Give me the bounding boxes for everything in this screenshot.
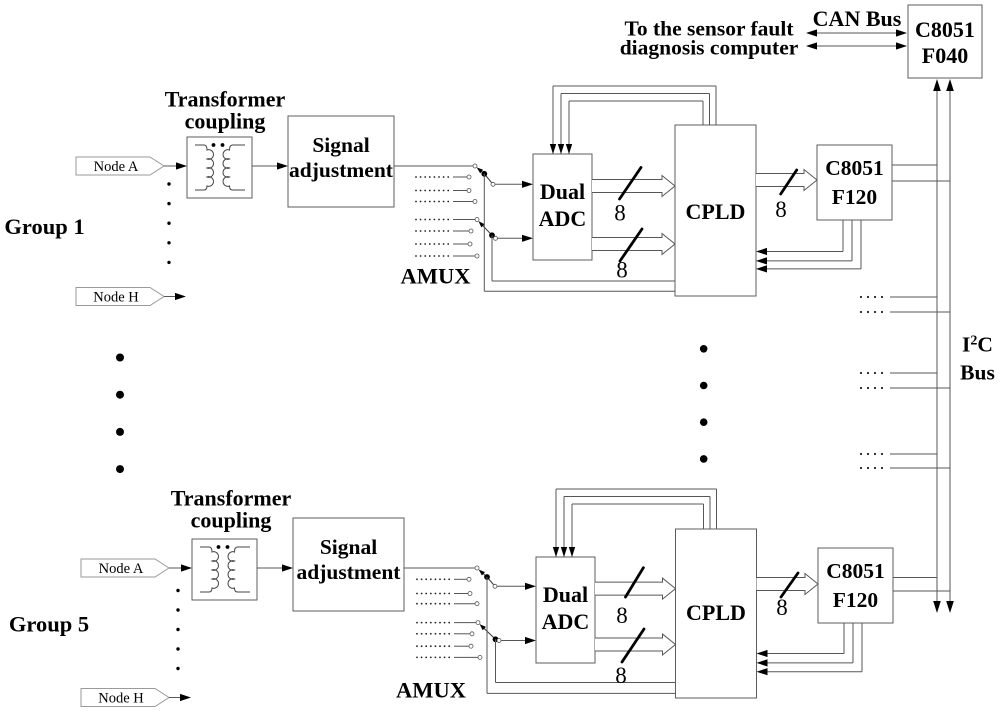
svg-text:8: 8: [615, 663, 627, 688]
svg-text:diagnosis computer: diagnosis computer: [620, 36, 799, 60]
svg-text:ADC: ADC: [542, 609, 590, 634]
svg-text:8: 8: [614, 201, 626, 226]
svg-text:Bus: Bus: [960, 361, 995, 385]
svg-text:F120: F120: [832, 185, 877, 209]
svg-text:C8051: C8051: [915, 17, 975, 42]
svg-text:Group 1: Group 1: [4, 214, 84, 239]
svg-text:adjustment: adjustment: [289, 158, 394, 182]
svg-text:C8051: C8051: [826, 559, 885, 583]
svg-text:C8051: C8051: [825, 156, 884, 180]
svg-text:Dual: Dual: [543, 582, 588, 607]
svg-text:Group 5: Group 5: [9, 612, 89, 637]
svg-text:AMUX: AMUX: [401, 264, 471, 289]
svg-text:adjustment: adjustment: [297, 560, 402, 584]
svg-text:CPLD: CPLD: [686, 199, 746, 224]
svg-text:8: 8: [616, 258, 628, 283]
svg-text:CPLD: CPLD: [686, 600, 746, 625]
svg-text:8: 8: [775, 197, 787, 222]
svg-text:F120: F120: [833, 588, 878, 612]
svg-text:8: 8: [616, 603, 628, 628]
svg-text:ADC: ADC: [539, 206, 587, 231]
svg-text:Dual: Dual: [540, 179, 585, 204]
svg-text:Node H: Node H: [93, 290, 139, 306]
svg-text:Node A: Node A: [94, 159, 139, 175]
svg-text:Node H: Node H: [98, 691, 144, 707]
svg-text:8: 8: [776, 595, 788, 620]
svg-text:I2C: I2C: [962, 333, 993, 357]
svg-text:Signal: Signal: [312, 133, 369, 157]
svg-text:Node A: Node A: [99, 561, 144, 577]
svg-text:Signal: Signal: [320, 535, 377, 559]
svg-text:CAN Bus: CAN Bus: [813, 6, 902, 31]
svg-text:coupling: coupling: [185, 108, 266, 133]
svg-text:AMUX: AMUX: [396, 678, 466, 703]
svg-text:F040: F040: [922, 43, 968, 68]
svg-text:coupling: coupling: [191, 508, 272, 533]
